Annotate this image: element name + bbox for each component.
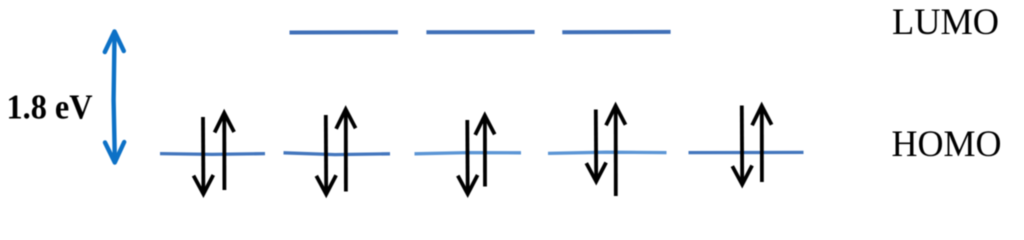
HOMO level 2 (284, 153, 391, 155)
spin-up arrow shaft (483, 117, 487, 186)
electron pair 4 (586, 106, 625, 196)
HOMO level 5 (689, 151, 804, 155)
spin-down arrow shaft (324, 115, 328, 192)
LUMO level 2 (426, 30, 534, 34)
svg-text:1.8 eV: 1.8 eV (7, 88, 93, 127)
svg-text:LUMO: LUMO (892, 2, 999, 43)
LUMO level 1 (290, 30, 398, 34)
HOMO level 3 (415, 153, 522, 154)
spin-down arrow shaft (465, 120, 469, 192)
spin-down arrow shaft (740, 106, 744, 183)
gap double arrow (105, 32, 124, 163)
spin-up arrow shaft (222, 115, 226, 190)
spin-down arrowhead (586, 163, 606, 182)
spin-down arrowhead (732, 166, 752, 185)
spin-down arrowhead (458, 175, 478, 194)
spin-down arrowhead (316, 175, 336, 194)
spin-up arrow shaft (344, 111, 348, 191)
HOMO level 1 (160, 152, 265, 156)
spin-down arrowhead (194, 175, 214, 194)
spin-up arrowhead (336, 109, 356, 129)
electron pair 1 (194, 113, 235, 194)
spin-down arrow shaft (201, 117, 205, 192)
svg-text:HOMO: HOMO (892, 124, 1002, 165)
spin-up arrow shaft (614, 108, 618, 196)
spin-up arrowhead (752, 106, 772, 126)
LUMO level 3 (562, 30, 670, 34)
HOMO level 4 (548, 152, 667, 153)
spin-up arrow shaft (760, 108, 764, 182)
spin-up arrowhead (606, 106, 626, 126)
spin-down arrow shaft (594, 110, 598, 180)
electron pair 3 (458, 115, 495, 194)
electron pair 2 (316, 109, 355, 194)
electron pair 5 (732, 106, 771, 185)
spin-up arrowhead (475, 115, 495, 134)
spin-up arrowhead (215, 113, 235, 133)
